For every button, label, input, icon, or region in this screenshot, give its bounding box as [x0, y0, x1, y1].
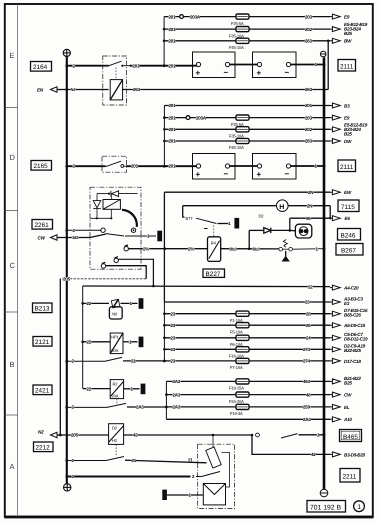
- svg-text:202: 202: [305, 27, 313, 32]
- svg-text:205: 205: [63, 277, 71, 282]
- svg-text:+: +: [257, 170, 262, 179]
- wire 22 to relay R2 coil: [83, 387, 111, 392]
- svg-text:2211: 2211: [343, 474, 357, 481]
- wire BL0 to thermal switch: [221, 246, 279, 251]
- relay box (dash-dot): [103, 56, 127, 105]
- wire 2 from bus to ignition: [65, 228, 100, 233]
- svg-text:201: 201: [305, 103, 313, 108]
- svg-text:EL: EL: [344, 405, 350, 410]
- svg-text:2261: 2261: [35, 222, 50, 229]
- contact and blade to bus: [256, 433, 326, 438]
- svg-text:7115: 7115: [341, 204, 355, 211]
- svg-text:BW: BW: [344, 39, 352, 44]
- wire 22 to N0: [81, 301, 109, 306]
- wire to coil from bus: [65, 87, 108, 92]
- wire 201 to battery: [164, 63, 196, 68]
- svg-text:2A3: 2A3: [136, 405, 144, 410]
- battery box 1: [193, 52, 236, 78]
- rail riser 23: [163, 302, 165, 361]
- svg-text:86: 86: [306, 216, 311, 221]
- svg-text:48: 48: [306, 392, 311, 397]
- fuse row F1: [163, 311, 236, 316]
- component box B267: [336, 244, 363, 256]
- fuse row F18: [166, 379, 236, 384]
- riser BL0 to diode: [248, 230, 250, 248]
- diode D top: [97, 191, 138, 197]
- svg-text:NJ: NJ: [71, 87, 76, 92]
- wire 201 to battery: [164, 164, 196, 169]
- svg-text:E6: E6: [345, 216, 351, 221]
- svg-text:E9: E9: [344, 15, 350, 20]
- svg-text:201: 201: [169, 14, 177, 19]
- connector box 2164: [31, 62, 52, 72]
- svg-text:23: 23: [305, 300, 310, 305]
- contact accessory: [101, 262, 105, 268]
- wire 48 to arrow CW: [249, 392, 352, 397]
- battery link wire: [230, 165, 258, 167]
- fuse row F24: [165, 392, 236, 397]
- svg-text:B25: B25: [344, 131, 352, 136]
- wire 203 to arrow E9: [249, 14, 350, 19]
- svg-text:2A3: 2A3: [303, 417, 311, 422]
- svg-text:22: 22: [87, 340, 92, 345]
- svg-text:42: 42: [311, 452, 316, 457]
- connector box 2165: [31, 161, 52, 171]
- wire 205 riser: [59, 279, 61, 435]
- svg-text:F18-15A: F18-15A: [229, 386, 244, 391]
- svg-text:201: 201: [169, 164, 177, 169]
- plus bus wire: [66, 57, 68, 484]
- svg-text:203A: 203A: [196, 115, 207, 120]
- junction at fuse feed: [163, 165, 166, 168]
- riser 86: [289, 218, 291, 230]
- svg-text:A: A: [10, 462, 15, 471]
- svg-text:B25: B25: [344, 31, 352, 36]
- wire 28 to arrow D7-B15-C16: [249, 308, 368, 318]
- svg-text:22: 22: [87, 387, 92, 392]
- fuse F35-10A: [229, 27, 249, 39]
- svg-text:B65-C26: B65-C26: [344, 313, 361, 318]
- feed riser 22: [82, 286, 84, 389]
- riser 263 to BW row: [327, 41, 329, 89]
- fuse F7-10A: [230, 358, 249, 370]
- fuse F6-10A: [230, 335, 249, 347]
- svg-text:263: 263: [305, 139, 313, 144]
- ground flag R2: [141, 384, 146, 395]
- relay coil K1: [110, 68, 122, 100]
- svg-text:2A3: 2A3: [173, 379, 181, 384]
- svg-text:463: 463: [303, 379, 311, 384]
- diode D2: [249, 214, 291, 234]
- thick feed row 2 bottom: [65, 474, 201, 479]
- svg-text:B: B: [10, 360, 15, 369]
- fuse row F7: [164, 359, 236, 364]
- svg-text:701 192 B: 701 192 B: [310, 504, 341, 511]
- svg-text:B3: B3: [344, 103, 350, 108]
- svg-text:EN: EN: [37, 88, 44, 93]
- svg-text:2111: 2111: [340, 164, 354, 171]
- svg-text:D2: D2: [259, 214, 265, 219]
- component box 7115: [338, 200, 359, 212]
- svg-text:2N: 2N: [307, 203, 312, 208]
- battery box 4: [253, 154, 297, 180]
- blade inside box: [202, 472, 221, 477]
- fuse F25-5A block2: [231, 115, 249, 127]
- ignition common contact: [101, 228, 105, 232]
- svg-text:201: 201: [169, 39, 177, 44]
- coil box small: [103, 200, 120, 210]
- svg-text:203: 203: [305, 115, 313, 120]
- svg-text:23: 23: [171, 311, 176, 316]
- wire 183 into ignition: [90, 234, 106, 238]
- svg-text:R4: R4: [211, 241, 217, 246]
- svg-text:+: +: [196, 170, 201, 179]
- junction dots internal: [96, 217, 98, 219]
- svg-text:E9: E9: [344, 116, 350, 121]
- wire 2 to switch: [67, 165, 103, 167]
- wire 1 to ground HP1: [123, 340, 138, 345]
- fuse row F6: [163, 336, 236, 341]
- ground flag N0: [139, 298, 144, 309]
- link dashed R2: [116, 399, 118, 406]
- battery link wire: [230, 64, 258, 66]
- ignition blade: [106, 234, 124, 236]
- svg-text:E: E: [10, 51, 15, 60]
- wire 203 to arrow E9 block2: [249, 115, 350, 120]
- earth symbol thermal: [282, 251, 290, 262]
- junction at fuse feed: [163, 64, 166, 67]
- fuse F24-20A: [229, 392, 249, 404]
- svg-text:183: 183: [72, 235, 79, 240]
- arrow B3-D9-B20: [311, 452, 366, 457]
- svg-text:23: 23: [171, 347, 176, 352]
- battery plus terminal top: [63, 49, 70, 56]
- wire 22 to HP1: [81, 340, 110, 345]
- svg-text:26: 26: [306, 323, 311, 328]
- svg-text:24: 24: [306, 336, 311, 341]
- svg-text:259: 259: [303, 405, 311, 410]
- svg-text:2A3: 2A3: [173, 405, 181, 410]
- svg-text:D: D: [10, 153, 16, 162]
- svg-text:201: 201: [169, 115, 177, 120]
- bottom border emphasis: [4, 517, 373, 519]
- svg-text:D2: D2: [112, 426, 118, 431]
- contact 2pct: [124, 245, 128, 251]
- svg-text:N0: N0: [112, 312, 118, 317]
- key travel arc: [122, 210, 137, 227]
- svg-text:201: 201: [133, 63, 141, 68]
- svg-text:B77: B77: [186, 216, 194, 221]
- wire to ground flag ignition: [125, 234, 156, 239]
- wire 26 to arrow A6-D9-C15: [249, 323, 366, 328]
- ignition switch row 21: [65, 357, 165, 363]
- svg-text:2164: 2164: [33, 64, 48, 71]
- page number circle 1: [354, 501, 365, 512]
- wire 259 to arrow EL: [249, 404, 350, 409]
- fuse row 263 block2: [163, 139, 236, 144]
- wire 205 row junction: [59, 433, 109, 438]
- svg-text:B246: B246: [341, 233, 356, 240]
- component box 2211: [340, 469, 360, 483]
- wire 205 outer U: [106, 266, 147, 279]
- svg-text:A6-D9-C15: A6-D9-C15: [343, 323, 366, 328]
- connector box B213: [33, 303, 53, 313]
- svg-text:F45-10A: F45-10A: [229, 145, 244, 150]
- tilted relay element: [206, 447, 221, 468]
- battery plus terminal bottom: [63, 484, 70, 491]
- relay contact: [101, 61, 130, 67]
- wire 274 to arrow D17-C18: [249, 358, 361, 363]
- svg-text:21: 21: [131, 359, 136, 364]
- svg-text:BL0: BL0: [230, 246, 238, 251]
- svg-text:42: 42: [133, 433, 138, 438]
- battery minus terminal top: [320, 51, 326, 57]
- svg-text:CW: CW: [344, 393, 352, 398]
- link dashed D2H2: [115, 444, 117, 456]
- svg-text:203A: 203A: [190, 14, 201, 19]
- svg-text:201: 201: [169, 27, 177, 32]
- svg-text:F7-10A: F7-10A: [230, 365, 243, 370]
- switch box (dash-dot): [102, 156, 126, 172]
- svg-text:−: −: [224, 170, 229, 179]
- switch contact: [103, 161, 126, 167]
- wire 273 to arrow D2-C9-A19: [249, 344, 366, 354]
- wire 1 to ground buzzer: [167, 493, 203, 498]
- link wires inside: [213, 435, 230, 487]
- svg-text:2421: 2421: [35, 388, 50, 395]
- svg-text:203: 203: [305, 14, 313, 19]
- svg-text:H2: H2: [112, 438, 118, 443]
- fuse F16-10A: [229, 347, 249, 359]
- svg-text:201: 201: [169, 127, 177, 132]
- battery box 2: [253, 52, 297, 78]
- wire 263 to arrow BW: [249, 38, 352, 43]
- switch B77: [183, 216, 231, 229]
- arrow CW out: [38, 235, 91, 241]
- svg-text:1: 1: [357, 504, 361, 511]
- riser to 86 row: [329, 206, 331, 219]
- link dashed B77 to B227: [213, 226, 215, 237]
- breaker N0: [109, 299, 122, 319]
- svg-text:−: −: [285, 68, 290, 77]
- component box 2111 lower: [338, 160, 356, 172]
- wire 202 to arrow E5: [249, 22, 368, 36]
- wire 42 from coil: [124, 433, 254, 438]
- wire 2 to relay switch: [67, 65, 101, 67]
- svg-text:201: 201: [131, 164, 139, 169]
- battery minus terminal bottom: [320, 489, 328, 497]
- svg-text:H: H: [279, 204, 284, 211]
- ground flag buzzer: [162, 490, 167, 500]
- lamp H: [183, 200, 331, 212]
- fuse row 203A block1: [164, 14, 236, 19]
- wire 24 to arrow C5-D6-C7: [249, 332, 368, 342]
- arrow N2 out: [38, 430, 60, 438]
- minus bus wire: [323, 57, 326, 489]
- riser from EW row: [163, 192, 165, 302]
- svg-text:263: 263: [305, 87, 313, 92]
- svg-text:N2: N2: [38, 430, 44, 435]
- svg-text:22: 22: [87, 301, 92, 306]
- fuse row F5: [163, 323, 236, 328]
- connector box 2121: [33, 337, 52, 347]
- flasher unit: [290, 224, 312, 238]
- ground flag HP1: [139, 337, 144, 348]
- zener diode left: [93, 201, 101, 209]
- margin column line: [17, 4, 19, 517]
- svg-text:DW: DW: [344, 139, 352, 144]
- fuse row 263 block1: [163, 39, 236, 44]
- svg-text:2N: 2N: [308, 190, 313, 195]
- fuse F25-5A: [231, 14, 249, 26]
- svg-text:CW: CW: [38, 236, 46, 241]
- wire 2A3 to arrow A10: [166, 417, 352, 422]
- svg-text:2212: 2212: [36, 445, 51, 452]
- svg-text:D17-C18: D17-C18: [344, 359, 361, 364]
- fuse row F19: [165, 405, 236, 410]
- fuse F45-10A: [229, 38, 249, 50]
- svg-text:F25-5A: F25-5A: [231, 21, 244, 26]
- wire 22 to arrow A4-C20: [83, 284, 359, 290]
- component box 2111 upper: [338, 60, 356, 72]
- svg-text:201: 201: [169, 103, 177, 108]
- svg-text:263: 263: [305, 39, 313, 44]
- svg-text:2111: 2111: [340, 64, 354, 71]
- svg-text:21: 21: [132, 458, 137, 463]
- wire ignition feed down: [118, 259, 153, 286]
- fuse row 202 block1: [163, 27, 236, 32]
- switch row 21 bottom: [65, 457, 206, 464]
- svg-text:F24-20A: F24-20A: [229, 399, 244, 404]
- svg-text:23: 23: [171, 323, 176, 328]
- svg-text:21: 21: [188, 458, 193, 463]
- svg-text:273: 273: [303, 347, 311, 352]
- svg-text:B22-B25: B22-B25: [344, 348, 361, 353]
- svg-text:HP1: HP1: [111, 335, 119, 340]
- svg-text:F5-10A: F5-10A: [230, 329, 243, 334]
- component box B465: [340, 430, 362, 442]
- internal wires: [90, 194, 111, 219]
- junction on plus bus: [65, 64, 68, 67]
- svg-text:263: 263: [133, 87, 141, 92]
- wire 1 to ground R2: [124, 387, 140, 392]
- fuse feed riser block2: [163, 106, 165, 167]
- svg-text:B3-D9-B20: B3-D9-B20: [344, 452, 366, 457]
- arrow EN out: [37, 87, 67, 93]
- svg-text:205: 205: [71, 433, 79, 438]
- fuse row 202 block2: [163, 127, 236, 132]
- svg-text:E3: E3: [344, 301, 350, 306]
- component box B246: [338, 229, 361, 241]
- wire 263 from coil to riser: [122, 87, 328, 92]
- ground flag ignition: [157, 231, 162, 242]
- svg-text:R2: R2: [113, 381, 119, 386]
- connector box 2421: [33, 385, 52, 395]
- svg-text:F19-3A: F19-3A: [230, 411, 243, 416]
- svg-text:F45-10A: F45-10A: [229, 45, 244, 50]
- svg-text:202: 202: [305, 127, 313, 132]
- svg-text:23: 23: [171, 336, 176, 341]
- svg-text:EW: EW: [344, 190, 352, 195]
- svg-text:22: 22: [308, 284, 313, 289]
- svg-text:+: +: [257, 69, 262, 78]
- svg-text:+: +: [196, 69, 201, 78]
- fuse feed riser block1: [163, 17, 165, 66]
- svg-text:A10: A10: [343, 417, 352, 422]
- fuse row F16: [163, 347, 236, 352]
- fuse F19-3A: [230, 404, 249, 416]
- svg-text:274: 274: [303, 359, 311, 364]
- thermal switch: [279, 240, 324, 252]
- connector box 2212: [34, 442, 54, 452]
- fuse F35-10A block2: [229, 127, 249, 139]
- ground flag B77: [234, 218, 239, 229]
- fuse F18-15A: [229, 379, 249, 391]
- junction on plus bus: [65, 165, 68, 168]
- wire 201 switch to fuse feed: [130, 63, 165, 68]
- fuse F45-10A block2: [229, 138, 249, 150]
- svg-text:2165: 2165: [34, 163, 49, 170]
- svg-text:28: 28: [306, 311, 311, 316]
- svg-text:2%: 2%: [143, 246, 149, 251]
- contact 205: [114, 257, 118, 263]
- battery minus wire 1 to ground bus: [291, 164, 326, 169]
- wire 1 to ground N0: [121, 301, 138, 306]
- svg-text:201: 201: [169, 139, 177, 144]
- svg-text:−: −: [285, 170, 290, 179]
- svg-text:B227: B227: [206, 271, 221, 278]
- rail riser 2A3: [165, 381, 167, 419]
- svg-text:D8-D12-C19: D8-D12-C19: [344, 337, 368, 342]
- svg-text:2%: 2%: [188, 246, 194, 251]
- svg-text:BL0: BL0: [253, 246, 261, 251]
- svg-text:2A3: 2A3: [173, 392, 181, 397]
- label box B227: [203, 269, 225, 278]
- battery box 3: [193, 154, 236, 180]
- start ring contact: [131, 228, 135, 232]
- svg-text:C: C: [10, 261, 16, 270]
- relay coil B227: [208, 237, 221, 262]
- title block 701 192 B: [307, 501, 346, 513]
- battery minus wire 1 to ground bus: [291, 62, 326, 67]
- branch to 42 output: [252, 435, 330, 454]
- fuse row 203A block2: [163, 115, 236, 120]
- wire 263 to arrow DW: [249, 139, 352, 144]
- wire 23 to arrow A3-B3-C3: [164, 296, 363, 306]
- svg-text:A4-C20: A4-C20: [343, 286, 359, 291]
- svg-text:201: 201: [169, 63, 177, 68]
- fuse F1-10A: [230, 311, 249, 323]
- relay D2 H2 coil: [109, 424, 124, 445]
- wire 463 to arrow B21-B22: [249, 376, 361, 386]
- svg-text:2121: 2121: [35, 339, 50, 346]
- svg-text:B25: B25: [344, 380, 352, 385]
- wire 86 to arrow E6: [290, 216, 351, 221]
- svg-text:−: −: [224, 68, 229, 77]
- margin row dividers: [4, 108, 18, 416]
- wire 202 to arrow E5 block2: [249, 122, 368, 136]
- buzzer envelope: [203, 484, 225, 505]
- starter switch row 2A3: [65, 403, 167, 409]
- interior lamp unit box (dash-dot): [198, 444, 235, 508]
- svg-text:23: 23: [171, 359, 176, 364]
- riser lamp feed: [182, 206, 184, 218]
- relay HP1 50A: [110, 333, 123, 354]
- wire 2pct to coil B227: [128, 246, 207, 251]
- svg-text:B213: B213: [35, 306, 50, 313]
- svg-text:B465: B465: [343, 434, 358, 441]
- ignition box (dash-dot): [90, 187, 141, 269]
